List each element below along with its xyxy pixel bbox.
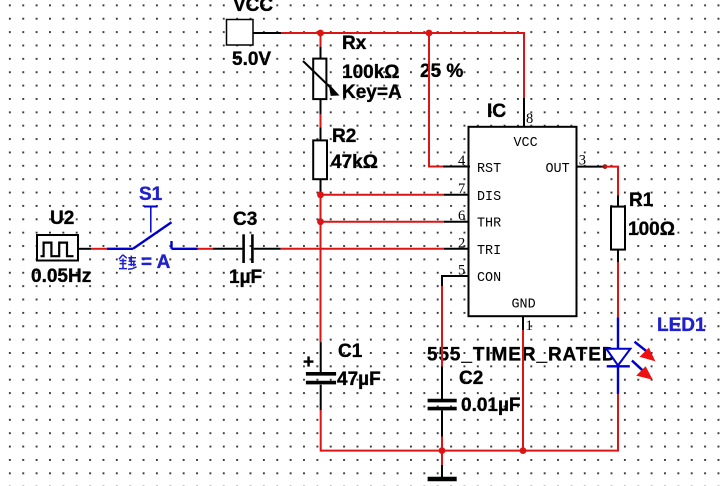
capacitor C2 [428,368,521,416]
svg-text:100Ω: 100Ω [628,219,675,240]
source U2 [31,208,91,287]
wire TRI [281,248,444,250]
svg-text:DIS: DIS [477,190,501,205]
svg-text:IC: IC [487,101,506,122]
svg-text:2: 2 [458,235,465,251]
capacitor C3 [229,209,262,288]
node DIS [317,191,324,198]
svg-text:S1: S1 [139,184,163,205]
power VCC [227,0,274,70]
svg-text:= A: = A [141,252,171,273]
wire C3 to TRI [254,248,281,250]
capacitor C1 [303,341,381,390]
svg-text:Rx: Rx [342,33,367,54]
wire LED to rail [617,366,619,394]
svg-text:C2: C2 [459,368,483,389]
potentiometer Rx [303,33,402,103]
switch S1 [107,184,198,249]
svg-text:47kΩ: 47kΩ [331,152,378,173]
node rail/RST [426,30,433,37]
svg-text:7: 7 [458,181,465,197]
svg-text:CON: CON [477,271,501,286]
svg-text:R2: R2 [332,126,356,147]
svg-text:GND: GND [512,298,536,313]
wire R1 to LED [617,250,619,263]
wire S1 to C3 [198,248,214,250]
node pin1/rail [520,447,527,454]
IC 555 box [458,101,586,316]
node rail/pot [317,30,324,37]
wire THR [321,221,445,223]
wire OUT [577,166,606,168]
svg-text:C3: C3 [233,209,257,230]
svg-text:555_TIMER_RATED: 555_TIMER_RATED [427,345,616,366]
svg-text:100kΩ: 100kΩ [342,62,400,83]
ground [441,451,443,465]
svg-text:+: + [303,352,314,373]
svg-text:RST: RST [477,162,501,177]
wire rail to pot [320,33,322,47]
wire RST [429,33,443,167]
svg-text:1µF: 1µF [229,267,262,288]
svg-text:6: 6 [458,208,465,224]
svg-text:1: 1 [526,318,533,334]
wire node to C1 [320,195,322,342]
wire CON [442,276,470,286]
svg-text:5.0V: 5.0V [232,49,271,70]
svg-text:U2: U2 [50,208,74,229]
svg-text:0.01µF: 0.01µF [461,395,521,416]
node C2/gnd [439,447,446,454]
wire C2 to rail [441,410,443,436]
svg-text:Key=A: Key=A [342,82,402,103]
resistor R1 [611,190,675,250]
svg-text:25 %: 25 % [420,61,463,82]
svg-text:VCC: VCC [233,0,273,16]
svg-text:8: 8 [526,111,533,127]
svg-text:5: 5 [458,263,465,279]
wire U2 to S1 [78,248,91,250]
svg-text:47µF: 47µF [337,369,381,390]
svg-text:VCC: VCC [514,136,538,151]
resistor R2 [313,126,378,179]
wire DIS [321,194,445,196]
wire R2 to node [320,179,322,195]
LED LED1 [606,315,706,380]
wire top rail [281,32,524,34]
svg-text:LED1: LED1 [657,315,706,336]
svg-text:C1: C1 [338,341,363,362]
wire pin1 to rail [522,316,524,330]
label key = A [119,252,171,273]
wire C1 to rail [320,385,322,410]
svg-text:0.05Hz: 0.05Hz [31,266,91,287]
svg-text:TRI: TRI [477,244,501,259]
node THR [317,218,324,225]
svg-text:R1: R1 [629,190,654,211]
svg-text:THR: THR [477,217,501,232]
svg-text:OUT: OUT [546,162,570,177]
wire pot to R2 [320,99,322,114]
wire rail to pin8 [523,32,525,98]
wire VCC to rail [253,32,281,34]
